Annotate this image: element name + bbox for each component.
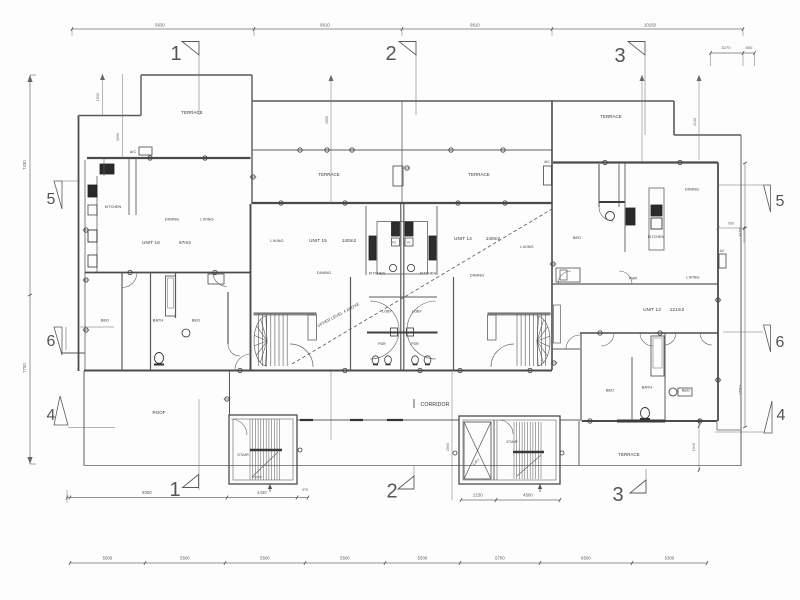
svg-text:5700: 5700 bbox=[495, 556, 505, 561]
svg-text:1: 1 bbox=[170, 43, 181, 65]
svg-text:5630: 5630 bbox=[155, 23, 165, 28]
building south line bbox=[84, 465, 741, 467]
unit13 wardrobe recess bbox=[554, 305, 561, 343]
svg-text:5500: 5500 bbox=[418, 556, 428, 561]
upper roof edge bbox=[252, 100, 674, 102]
marker 6 right leader bbox=[723, 331, 763, 333]
terrace 16 outline bbox=[79, 115, 142, 117]
svg-text:STAIR: STAIR bbox=[237, 452, 249, 457]
unit13 bath wall a bbox=[631, 357, 633, 420]
svg-text:CORRIDOR: CORRIDOR bbox=[420, 402, 449, 408]
unit13 bed door arcs bbox=[601, 333, 614, 346]
unit16 fridge extra bbox=[88, 255, 97, 267]
unit15 kitchen west wall bbox=[365, 206, 367, 275]
unit15-16 party wall bbox=[250, 204, 252, 370]
svg-text:4950: 4950 bbox=[325, 116, 329, 124]
unit14 lobby wall bbox=[453, 277, 455, 370]
svg-text:UNIT 14: UNIT 14 bbox=[454, 236, 472, 241]
svg-text:BATH: BATH bbox=[642, 385, 653, 390]
svg-text:6: 6 bbox=[47, 333, 56, 350]
svg-text:4: 4 bbox=[47, 407, 56, 424]
svg-text:5500: 5500 bbox=[260, 556, 270, 561]
unit16 bed1 wall bbox=[121, 273, 123, 371]
roof west wall bbox=[83, 371, 85, 466]
svg-text:ROOF: ROOF bbox=[152, 410, 165, 415]
unit16 kitchen fixtures bbox=[100, 164, 114, 174]
unit13 entry wall bbox=[552, 348, 580, 350]
svg-text:BED: BED bbox=[573, 235, 581, 240]
svg-text:3: 3 bbox=[612, 484, 623, 506]
unit16 bed closet line bbox=[80, 326, 114, 328]
unit14 kitchen east wall bbox=[436, 206, 438, 275]
svg-text:140m2: 140m2 bbox=[486, 236, 501, 241]
corridor south wall left bbox=[297, 419, 459, 421]
unit13 laundry bbox=[556, 268, 580, 282]
unit16 pantry wall bbox=[128, 158, 130, 215]
svg-text:956: 956 bbox=[728, 222, 734, 226]
svg-text:DINING: DINING bbox=[470, 273, 484, 278]
unit14-13 party wall bbox=[551, 101, 553, 370]
dashed upper level line bbox=[292, 209, 552, 364]
svg-text:DINING: DINING bbox=[165, 217, 179, 222]
svg-text:DINING: DINING bbox=[685, 187, 699, 192]
svg-text:PDR: PDR bbox=[378, 342, 386, 346]
svg-text:1010: 1010 bbox=[692, 443, 696, 451]
unit15 lobby wall bbox=[350, 277, 352, 370]
unit13 entry door arc bbox=[566, 335, 580, 349]
svg-text:2560: 2560 bbox=[446, 443, 450, 451]
svg-text:6500: 6500 bbox=[581, 556, 591, 561]
svg-text:2: 2 bbox=[386, 481, 397, 503]
unit16 bed2 wall bbox=[227, 292, 229, 344]
unit13 bath fixtures bbox=[651, 336, 664, 376]
svg-text:370: 370 bbox=[302, 488, 308, 492]
central party wall bbox=[400, 203, 402, 370]
svg-text:5: 5 bbox=[47, 191, 56, 208]
unit13 north wall bbox=[553, 161, 718, 163]
window and door tags bbox=[148, 156, 152, 160]
unit13 bath wall b bbox=[664, 333, 666, 420]
svg-text:LIVING: LIVING bbox=[200, 217, 213, 222]
svg-text:A/C: A/C bbox=[544, 160, 550, 164]
marker 5 right leader bbox=[718, 184, 763, 186]
svg-text:7700: 7700 bbox=[22, 363, 27, 373]
svg-text:9610: 9610 bbox=[320, 23, 330, 28]
svg-text:2150: 2150 bbox=[473, 493, 483, 498]
svg-text:UNIT 15: UNIT 15 bbox=[309, 238, 327, 243]
svg-text:A/C: A/C bbox=[130, 150, 137, 154]
svg-text:1500: 1500 bbox=[96, 93, 100, 101]
svg-text:2: 2 bbox=[385, 43, 396, 65]
svg-text:DINING: DINING bbox=[317, 270, 331, 275]
corridor door dashes bbox=[300, 419, 313, 421]
svg-text:KITCHEN: KITCHEN bbox=[369, 272, 386, 276]
svg-text:KITCHEN: KITCHEN bbox=[420, 272, 437, 276]
unit13 kitchen island bbox=[649, 188, 664, 250]
svg-text:KITCHEN: KITCHEN bbox=[105, 205, 122, 209]
unit16 north wall bbox=[87, 157, 251, 159]
svg-text:TERRACE: TERRACE bbox=[318, 172, 340, 177]
svg-text:2130: 2130 bbox=[693, 118, 697, 126]
svg-text:UNIT 16: UNIT 16 bbox=[142, 240, 160, 245]
svg-text:4: 4 bbox=[777, 407, 786, 424]
unit13 bed wall bbox=[580, 332, 718, 334]
svg-text:97m2: 97m2 bbox=[179, 240, 191, 245]
svg-text:4430: 4430 bbox=[257, 490, 267, 495]
dim extension x331 bottom bbox=[330, 371, 332, 440]
marker 6 left leader bbox=[62, 352, 85, 354]
svg-text:BED: BED bbox=[192, 318, 200, 323]
bottom dimension line left bbox=[67, 497, 308, 499]
stair tower east with lift bbox=[459, 416, 560, 484]
unit13 south wall bbox=[582, 420, 717, 422]
svg-text:5500: 5500 bbox=[180, 556, 190, 561]
unit16 bath west wall bbox=[150, 273, 152, 371]
unit13 terrace west edge bbox=[578, 421, 580, 466]
svg-text:TERRACE: TERRACE bbox=[468, 172, 490, 177]
central kitchens bbox=[377, 222, 428, 275]
unit16 door arcs bbox=[122, 273, 137, 288]
svg-text:2560: 2560 bbox=[738, 385, 743, 395]
bottom dimension line right stair bbox=[461, 499, 560, 501]
unit13 terrace step bbox=[717, 429, 741, 431]
marker 4 right leader bbox=[715, 431, 764, 433]
unit13 mid wall bbox=[552, 283, 718, 285]
svg-text:PDR: PDR bbox=[411, 342, 419, 346]
svg-text:9300: 9300 bbox=[142, 490, 152, 495]
marker 5 left leader bbox=[62, 180, 80, 182]
svg-text:5500: 5500 bbox=[340, 556, 350, 561]
svg-text:STAIR: STAIR bbox=[506, 439, 518, 444]
unit14 stair bbox=[488, 313, 551, 316]
svg-text:BED: BED bbox=[101, 318, 109, 323]
svg-text:800: 800 bbox=[746, 45, 754, 50]
svg-text:3: 3 bbox=[614, 45, 625, 67]
svg-text:LIVING: LIVING bbox=[520, 244, 533, 249]
svg-text:4500: 4500 bbox=[523, 493, 533, 498]
corridor label bbox=[413, 399, 415, 408]
right dimension line bbox=[744, 163, 746, 427]
bottom overall dimension line bbox=[70, 562, 707, 564]
unit16 kitchen wall bbox=[96, 176, 98, 272]
svg-text:BED: BED bbox=[682, 388, 690, 393]
marker 4 left leader bbox=[68, 427, 115, 429]
svg-text:5: 5 bbox=[776, 193, 785, 210]
stair tower west bbox=[229, 415, 297, 484]
unit13 bed west wall bbox=[580, 333, 582, 421]
unit13 ensuite bbox=[598, 164, 600, 207]
corridor north wall bbox=[84, 370, 552, 372]
dim extension x642 bbox=[641, 75, 643, 162]
svg-text:121m2: 121m2 bbox=[670, 307, 685, 312]
pillar center top bbox=[393, 166, 403, 186]
dim extension left x122 bbox=[122, 74, 124, 158]
unit13 south wall sill bbox=[617, 420, 665, 423]
dim right 956 bbox=[718, 227, 744, 229]
svg-text:LIVING: LIVING bbox=[686, 275, 699, 280]
svg-text:LOBY: LOBY bbox=[412, 310, 422, 314]
svg-text:LOBY: LOBY bbox=[382, 310, 392, 314]
svg-text:PWR: PWR bbox=[629, 277, 638, 281]
svg-text:140m2: 140m2 bbox=[342, 238, 357, 243]
svg-text:BED: BED bbox=[606, 388, 614, 393]
corridor south wall east segment bbox=[560, 419, 580, 421]
corridor west end wall bbox=[229, 371, 231, 415]
unit16 bath east wall bbox=[175, 273, 177, 319]
lobby cluster walls bbox=[369, 296, 437, 298]
dim extension left x102 bbox=[102, 74, 104, 115]
unit16 living-bed wall bbox=[85, 272, 251, 274]
left dimension line bbox=[29, 75, 31, 464]
roof edge step right bbox=[673, 101, 675, 135]
svg-text:9610: 9610 bbox=[470, 23, 480, 28]
svg-text:KITCHEN: KITCHEN bbox=[648, 235, 665, 239]
west outer wall bbox=[78, 116, 80, 372]
unit16 bath fixtures bbox=[166, 276, 176, 316]
unit13 east wall bbox=[717, 163, 719, 422]
dim extension x699 bottom bbox=[698, 421, 700, 471]
west inner wall bbox=[84, 160, 86, 371]
svg-text:LIVING: LIVING bbox=[270, 238, 283, 243]
svg-text:3050: 3050 bbox=[116, 133, 120, 141]
svg-text:5300: 5300 bbox=[665, 556, 675, 561]
svg-text:UNIT 13: UNIT 13 bbox=[643, 307, 661, 312]
dim extension x199 bottom bbox=[198, 399, 200, 490]
dim extension x331 bbox=[330, 75, 332, 203]
top right secondary dimension bbox=[711, 52, 755, 54]
unit15 stair bbox=[254, 313, 317, 316]
svg-text:5500: 5500 bbox=[103, 556, 113, 561]
svg-text:3270: 3270 bbox=[721, 45, 731, 50]
unit15-14 north wall bbox=[252, 202, 552, 204]
terrace divider x402 upper bbox=[401, 101, 403, 203]
top dimension line bbox=[72, 28, 743, 30]
wall unit15-16 boundary bbox=[251, 75, 253, 204]
svg-text:TERRACE: TERRACE bbox=[181, 110, 203, 115]
svg-text:AC: AC bbox=[720, 249, 725, 253]
svg-text:6: 6 bbox=[776, 334, 785, 351]
svg-text:TERRACE: TERRACE bbox=[600, 114, 622, 119]
svg-text:PO: PO bbox=[392, 241, 397, 245]
outer east boundary bbox=[740, 135, 742, 466]
svg-text:10150: 10150 bbox=[644, 23, 657, 28]
dim extension x452 bbox=[451, 372, 453, 500]
svg-text:7430: 7430 bbox=[22, 160, 27, 170]
dim extension x699 top bbox=[698, 75, 700, 160]
svg-text:P1: P1 bbox=[407, 241, 411, 245]
terrace band line units 15-14 bbox=[252, 149, 552, 151]
svg-text:1: 1 bbox=[169, 479, 180, 501]
svg-text:TERRACE: TERRACE bbox=[618, 452, 640, 457]
svg-text:BATH: BATH bbox=[153, 318, 164, 323]
